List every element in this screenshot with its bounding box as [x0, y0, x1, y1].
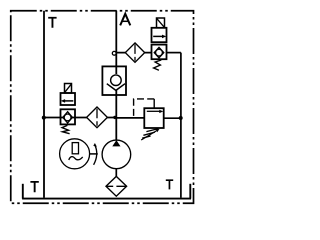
- solenoid valve S2 position box 1: [61, 93, 76, 105]
- solenoid valve S2 position box 2: [61, 109, 76, 124]
- wire port A line down to check valve: [115, 11, 117, 74]
- relief valve RV body: [144, 108, 163, 128]
- label T (tank, bottom-left): [30, 181, 38, 192]
- motor-pump shaft: [90, 153, 98, 155]
- pump P1 circle: [102, 140, 131, 169]
- electric motor M1 circle: [60, 139, 90, 169]
- solenoid valve S2 poppet ball: [64, 114, 71, 121]
- solenoid valve S2 flow arrow: [65, 100, 74, 102]
- node junction right return line: [179, 116, 183, 120]
- relief valve RV flow arrow: [147, 110, 160, 112]
- solenoid valve S1 flow arrow: [153, 35, 162, 37]
- filter F2 element (dashed): [96, 109, 98, 127]
- filter F1 diamond: [125, 43, 144, 62]
- solenoid valve S2 return spring: [62, 125, 70, 133]
- check valve V1 cartridge body: [102, 66, 126, 95]
- wire check valve to pump outlet: [115, 90, 117, 140]
- electric motor M1 glyph: [72, 143, 78, 154]
- pump P1 outlet triangle: [112, 140, 120, 146]
- node A junction (port marker): [112, 51, 116, 55]
- wire valve S1 outlet: [167, 52, 181, 54]
- label T (port, top-left): [48, 17, 56, 28]
- node junction pump outlet: [113, 116, 116, 119]
- filter F1 element (dashed): [134, 44, 136, 60]
- relief valve RV pilot line (dashed): [153, 99, 155, 108]
- node junction T line / valve S2: [42, 116, 46, 120]
- solenoid valve S1 position box 2: [152, 45, 167, 60]
- solenoid valve S2 poppet seat: [63, 112, 73, 123]
- shaft rotation arrow: [94, 145, 97, 165]
- solenoid valve S2 coil: [65, 84, 72, 94]
- check valve V1 ball: [111, 75, 122, 86]
- solenoid valve S1 return spring: [154, 60, 162, 70]
- tank reservoir right wall: [189, 184, 191, 199]
- wire node A to filter F1: [116, 52, 151, 54]
- solenoid valve S1 position box 1: [152, 28, 167, 42]
- tank reservoir bottom: [22, 198, 191, 200]
- wire pump inlet to strainer: [115, 169, 117, 177]
- wire port T line down to tank: [43, 11, 45, 198]
- wire right return line down to tank: [180, 53, 182, 198]
- filter F2 diamond: [87, 107, 108, 128]
- suction strainer diamond: [106, 176, 127, 196]
- relief valve RV adjustable spring: [142, 129, 158, 139]
- wire pump node to relief valve inlet: [116, 117, 144, 119]
- solenoid valve S1 poppet seat: [154, 47, 164, 58]
- solenoid valve S1 coil: [157, 18, 165, 28]
- wire relief valve outlet to right return line: [164, 117, 181, 119]
- suction strainer element (dashed): [106, 185, 126, 187]
- tank reservoir left wall: [22, 184, 24, 199]
- check valve V1 seat: [107, 84, 125, 91]
- enclosure border (power unit boundary, dash-dot): [11, 11, 194, 204]
- label A (port, top): [120, 14, 130, 26]
- label T (tank, bottom-right): [166, 179, 173, 189]
- wire T line to valve S2 and filter F2: [44, 117, 116, 119]
- solenoid valve S1 poppet ball: [156, 49, 163, 56]
